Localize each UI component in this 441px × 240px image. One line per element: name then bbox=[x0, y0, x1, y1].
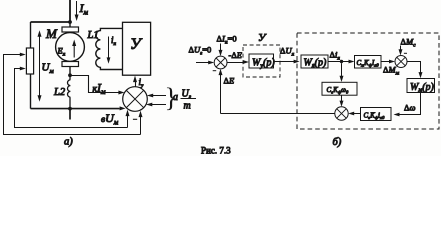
voltage arrow Uм bbox=[38, 30, 42, 102]
svg-text:Wу(p): Wу(p) bbox=[252, 58, 275, 70]
svg-text:CеКфω0: CеКфω0 bbox=[327, 86, 349, 95]
arrow inside motor bbox=[72, 40, 76, 58]
amplifier У box bbox=[123, 22, 151, 75]
wire: left branch vertical bbox=[30, 22, 32, 109]
minus sign at summing node 2 bbox=[404, 52, 407, 54]
label L2 bbox=[53, 87, 66, 98]
wire: feedback line inner (vUм) to potentiometer tap 2 bbox=[15, 67, 128, 128]
label diya bbox=[330, 50, 341, 62]
label Iм bbox=[79, 1, 89, 17]
label iy bbox=[139, 77, 145, 89]
wire: CeKfiya0 to summing node 3 bbox=[348, 112, 360, 116]
svg-text:ΔUг=0: ΔUг=0 bbox=[189, 45, 212, 57]
motor M brush bottom bbox=[62, 62, 79, 67]
block CeKfiya0 bbox=[361, 108, 392, 121]
svg-text:Δiя: Δiя bbox=[330, 50, 341, 62]
motor M armature circle bbox=[56, 33, 85, 62]
caption Рис. 7.3 bbox=[201, 146, 231, 156]
block CmKfIya0 bbox=[355, 56, 382, 69]
svg-text:L2: L2 bbox=[53, 87, 66, 98]
label vUм bbox=[101, 111, 119, 126]
wire: CeKfw0 to summing node 3 bbox=[340, 95, 344, 107]
inductor L2 bbox=[68, 75, 71, 108]
wire: to summing node 2 bbox=[381, 60, 395, 64]
svg-text:Δω: Δω bbox=[404, 103, 415, 113]
minus sign at multiplier bottom bbox=[133, 118, 137, 120]
svg-text:L1: L1 bbox=[87, 30, 99, 41]
summing node 2 bbox=[395, 56, 407, 68]
current arrow Iм bbox=[75, 1, 79, 21]
motor M armature lead bottom bbox=[69, 67, 71, 76]
top input arrow dMc bbox=[399, 46, 403, 56]
wire: feedback line outer to potentiometer tap 1 bbox=[4, 53, 141, 135]
block Wya(p) bbox=[301, 55, 328, 69]
svg-text:У: У bbox=[258, 32, 267, 44]
wire: Wm down and left to CeKfiya0 bbox=[394, 93, 421, 117]
svg-text:Рис. 7.3: Рис. 7.3 bbox=[201, 146, 231, 156]
label kIм bbox=[93, 81, 106, 96]
wire: top horizontal bbox=[31, 21, 71, 23]
wire: summing node 2 to Wm bbox=[407, 62, 423, 79]
label L1 bbox=[87, 30, 99, 41]
motor M armature lead top bbox=[69, 22, 71, 27]
wire: summing node 3 output left (dE return) bbox=[221, 113, 335, 115]
input arrow to summing node 1 bbox=[196, 61, 214, 65]
label dMc bbox=[401, 37, 417, 49]
wire: summing node 1 to Wy bbox=[227, 60, 249, 64]
svg-text:M: M bbox=[45, 26, 58, 41]
svg-text:ΔUя: ΔUя bbox=[280, 46, 295, 58]
wire: junction to CmKfIya0 bbox=[342, 60, 355, 64]
node: bottom junction bbox=[68, 107, 72, 111]
big dashed box bbox=[297, 33, 439, 129]
svg-text:-ΔE: -ΔE bbox=[229, 50, 243, 60]
svg-text:Uм: Uм bbox=[42, 62, 54, 76]
wire Wya out bbox=[328, 61, 342, 63]
label b) bbox=[333, 137, 342, 148]
svg-text:m: m bbox=[184, 101, 191, 112]
multiplier right input 1 bbox=[147, 94, 166, 98]
label dw bbox=[404, 103, 415, 113]
svg-text:Wя(p): Wя(p) bbox=[304, 57, 327, 69]
wire: stub below bottom junction bbox=[69, 109, 71, 120]
block CeKfw0 bbox=[322, 82, 357, 95]
multiplier right input 2 bbox=[146, 103, 166, 107]
svg-text:вUм: вUм bbox=[101, 111, 119, 126]
node: top junction bbox=[68, 20, 72, 24]
label a Ug/m bbox=[173, 89, 196, 112]
label iя bbox=[111, 35, 117, 47]
minus sign at summing node 1 bbox=[213, 70, 217, 72]
label M bbox=[45, 26, 58, 41]
resistor: potentiometer on left branch bbox=[26, 48, 33, 74]
label Uм bbox=[42, 62, 54, 76]
inductor L1 (amplifier winding) bbox=[96, 28, 123, 69]
svg-text:кIм: кIм bbox=[93, 81, 106, 96]
node: armature-L2 junction bbox=[68, 73, 72, 77]
multiplier node circle bbox=[123, 87, 148, 112]
dashed box У bbox=[243, 45, 280, 77]
block Wy(p) bbox=[249, 54, 275, 69]
svg-text:б): б) bbox=[333, 137, 342, 148]
wire: Wy to Wya bbox=[274, 60, 300, 64]
wire: iy from multiplier to amplifier bbox=[133, 76, 137, 87]
label dE bbox=[224, 76, 235, 86]
label Eя inside motor bbox=[57, 46, 66, 58]
svg-text:Wм(p): Wм(p) bbox=[410, 82, 435, 94]
wire: kIм feedback to multiplier bbox=[70, 76, 124, 95]
svg-text:iя: iя bbox=[111, 35, 117, 47]
wire: supply line from top bbox=[69, 0, 71, 22]
label У bbox=[130, 36, 143, 53]
svg-text:ΔMс: ΔMс bbox=[401, 37, 417, 49]
motor M brush top bbox=[62, 27, 79, 32]
svg-text:ΔE: ΔE bbox=[224, 76, 235, 86]
wire: bottom horizontal bbox=[31, 106, 126, 110]
summing node 3 bbox=[335, 107, 348, 120]
wire: diya junction down to CeKfw0 bbox=[340, 63, 344, 82]
svg-text:ΔIн=0: ΔIн=0 bbox=[217, 34, 237, 46]
label У above dashed box bbox=[258, 32, 267, 44]
label a) bbox=[64, 137, 73, 148]
svg-text:а): а) bbox=[64, 137, 73, 148]
feedback arrow dE into summing node 1 bbox=[219, 69, 223, 114]
multiplier bottom input 2 bbox=[139, 111, 143, 135]
label -dE bbox=[229, 50, 243, 60]
label dMm bbox=[383, 65, 400, 77]
label dIn=0 bbox=[217, 34, 237, 46]
label dUg=0 bbox=[189, 45, 212, 57]
node: diya junction bbox=[340, 60, 343, 63]
block Wm(p) bbox=[407, 79, 435, 94]
multiplier bottom input 1 bbox=[126, 110, 130, 128]
label dUya bbox=[280, 46, 295, 58]
top input arrow to summing node 1 bbox=[219, 44, 223, 57]
summing node 1 bbox=[214, 56, 227, 69]
svg-text:a: a bbox=[173, 92, 178, 103]
svg-text:Iм: Iм bbox=[79, 1, 89, 17]
brace bbox=[165, 83, 178, 113]
current arrow iя bbox=[107, 37, 111, 64]
